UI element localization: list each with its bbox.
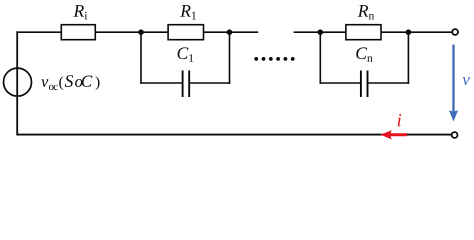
- wire RC1 left vertical: [140, 32, 142, 84]
- wire RC1 right vertical: [229, 32, 231, 84]
- label Ri: [73, 5, 87, 19]
- capacitor C1 right plate: [188, 71, 190, 98]
- wire top rail left segment: [16, 31, 258, 33]
- label Cn: [356, 47, 372, 61]
- label C1: [178, 47, 194, 61]
- arrow v (blue, down): [449, 45, 458, 122]
- arrow i (red, left): [380, 130, 407, 139]
- label v_oc(SoC): [41, 75, 99, 90]
- voltage source V_oc circle: [4, 68, 32, 96]
- label v (blue): [463, 77, 470, 85]
- wire Cn right lead: [368, 82, 409, 84]
- wire C1 right lead: [190, 82, 231, 84]
- wire bottom rail: [16, 134, 451, 136]
- wire C1 left lead: [140, 82, 182, 84]
- wire RC2 right vertical: [407, 32, 409, 84]
- junction dot Rn right: [406, 29, 412, 35]
- label R1: [180, 5, 196, 19]
- capacitor Cn left plate: [360, 71, 362, 98]
- junction dot R1 right: [227, 29, 233, 35]
- terminal bottom right open circle: [452, 132, 458, 138]
- capacitor C1 left plate: [182, 71, 184, 98]
- junction dot R1 left: [138, 29, 144, 35]
- resistor Rn box: [346, 25, 381, 40]
- wire RC2 left vertical: [319, 32, 321, 84]
- capacitor Cn right plate: [367, 71, 369, 98]
- wire top rail right segment: [294, 31, 452, 33]
- resistor Ri box: [61, 25, 95, 40]
- label i (red): [398, 114, 402, 126]
- wire left vertical: [16, 31, 18, 134]
- resistor R1 box: [168, 25, 203, 40]
- ellipsis dots: [254, 57, 294, 61]
- terminal top right open circle: [452, 29, 458, 35]
- label Rn: [358, 5, 374, 19]
- junction dot Rn left: [318, 29, 324, 35]
- wire Cn left lead: [320, 82, 361, 84]
